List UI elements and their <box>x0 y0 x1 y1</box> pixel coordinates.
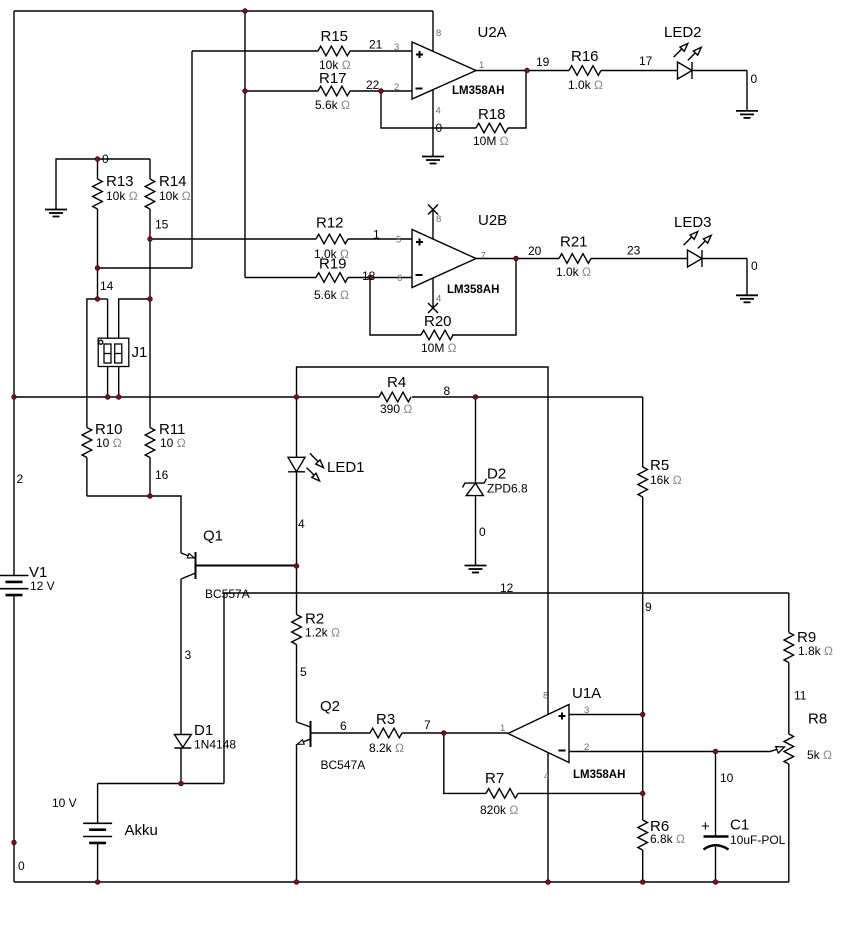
svg-text:R4: R4 <box>387 374 406 391</box>
svg-text:1.0k Ω: 1.0k Ω <box>568 78 603 92</box>
svg-text:Q1: Q1 <box>203 528 223 545</box>
svg-text:R16: R16 <box>571 48 599 65</box>
svg-text:2: 2 <box>394 82 399 93</box>
svg-text:5.6k Ω: 5.6k Ω <box>315 98 350 112</box>
svg-text:20: 20 <box>528 244 542 258</box>
svg-text:3: 3 <box>185 648 192 662</box>
svg-text:11: 11 <box>794 689 807 703</box>
svg-text:1.2k Ω: 1.2k Ω <box>305 626 340 640</box>
svg-text:1: 1 <box>479 60 484 71</box>
svg-text:10 V: 10 V <box>52 796 77 810</box>
svg-text:0: 0 <box>436 121 443 135</box>
svg-text:7: 7 <box>424 718 431 732</box>
svg-text:U2A: U2A <box>478 24 507 41</box>
svg-text:18: 18 <box>362 269 376 283</box>
svg-text:D1: D1 <box>194 722 213 739</box>
svg-text:8: 8 <box>444 384 451 398</box>
svg-text:0: 0 <box>18 859 25 873</box>
svg-text:5.6k Ω: 5.6k Ω <box>314 288 349 302</box>
svg-text:2: 2 <box>17 472 24 486</box>
svg-text:6: 6 <box>397 273 402 284</box>
svg-text:R19: R19 <box>319 256 347 273</box>
svg-text:R17: R17 <box>319 70 347 87</box>
svg-text:Akku: Akku <box>125 822 158 839</box>
svg-text:22: 22 <box>366 78 380 92</box>
svg-text:10: 10 <box>720 771 734 785</box>
svg-text:U2B: U2B <box>478 212 507 229</box>
svg-text:16k Ω: 16k Ω <box>650 473 682 487</box>
svg-text:12: 12 <box>500 581 514 595</box>
svg-text:16: 16 <box>155 468 169 482</box>
svg-text:Q2: Q2 <box>320 698 340 715</box>
svg-text:0: 0 <box>751 259 758 273</box>
svg-text:J1: J1 <box>132 344 148 361</box>
svg-text:LED2: LED2 <box>664 24 702 41</box>
svg-text:9: 9 <box>645 600 652 614</box>
svg-text:R14: R14 <box>159 173 187 190</box>
svg-text:6: 6 <box>340 719 347 733</box>
svg-text:1: 1 <box>500 723 505 734</box>
svg-text:8: 8 <box>436 28 441 39</box>
svg-text:10 Ω: 10 Ω <box>96 436 122 450</box>
svg-text:4: 4 <box>436 294 441 305</box>
svg-text:R21: R21 <box>560 234 588 251</box>
svg-text:5k Ω: 5k Ω <box>807 748 832 762</box>
svg-text:0: 0 <box>751 72 758 86</box>
svg-text:LED3: LED3 <box>674 214 712 231</box>
svg-text:1.0k Ω: 1.0k Ω <box>556 265 591 279</box>
svg-text:23: 23 <box>627 244 641 258</box>
svg-text:4: 4 <box>298 517 305 531</box>
svg-text:1: 1 <box>373 228 380 242</box>
svg-text:0: 0 <box>479 525 486 539</box>
svg-text:19: 19 <box>536 55 550 69</box>
svg-text:R8: R8 <box>808 711 827 728</box>
svg-text:10 Ω: 10 Ω <box>160 436 186 450</box>
svg-text:R3: R3 <box>376 711 395 728</box>
svg-text:4: 4 <box>436 106 441 117</box>
svg-text:C1: C1 <box>730 817 749 834</box>
svg-text:3: 3 <box>584 705 589 716</box>
svg-text:BC547A: BC547A <box>321 758 366 772</box>
svg-text:+: + <box>701 818 710 835</box>
svg-text:LED1: LED1 <box>327 459 365 476</box>
svg-text:7: 7 <box>481 251 486 262</box>
svg-text:0: 0 <box>102 152 109 166</box>
svg-text:10M Ω: 10M Ω <box>421 341 457 355</box>
svg-text:R18: R18 <box>478 106 506 123</box>
svg-text:4: 4 <box>544 771 549 782</box>
svg-text:3: 3 <box>394 42 399 53</box>
svg-text:D2: D2 <box>487 466 506 483</box>
svg-text:R7: R7 <box>485 770 504 787</box>
svg-text:ZPD6.8: ZPD6.8 <box>487 482 528 496</box>
svg-text:R12: R12 <box>316 215 344 232</box>
svg-text:R20: R20 <box>424 313 452 330</box>
svg-text:10uF-POL: 10uF-POL <box>730 833 786 847</box>
svg-text:1.8k Ω: 1.8k Ω <box>798 644 833 658</box>
svg-text:8.2k Ω: 8.2k Ω <box>369 741 404 755</box>
svg-text:8: 8 <box>543 691 548 702</box>
svg-text:390 Ω: 390 Ω <box>380 402 412 416</box>
svg-text:15: 15 <box>155 218 169 232</box>
svg-text:12 V: 12 V <box>30 579 55 593</box>
svg-text:5: 5 <box>300 665 307 679</box>
svg-text:2: 2 <box>584 742 589 753</box>
svg-text:BC557A: BC557A <box>205 587 250 601</box>
svg-text:5: 5 <box>396 235 401 246</box>
svg-text:LM358AH: LM358AH <box>452 85 504 97</box>
svg-text:1N4148: 1N4148 <box>194 738 236 752</box>
svg-text:LM358AH: LM358AH <box>573 769 625 781</box>
svg-text:8: 8 <box>436 214 441 225</box>
svg-text:R15: R15 <box>321 28 349 45</box>
svg-text:R5: R5 <box>650 457 669 474</box>
svg-text:R13: R13 <box>106 173 134 190</box>
svg-text:14: 14 <box>100 279 114 293</box>
svg-text:U1A: U1A <box>572 685 601 702</box>
svg-text:10M Ω: 10M Ω <box>473 134 509 148</box>
svg-text:LM358AH: LM358AH <box>447 284 499 296</box>
svg-text:6.8k Ω: 6.8k Ω <box>650 832 685 846</box>
svg-text:17: 17 <box>639 54 653 68</box>
svg-text:21: 21 <box>369 38 383 52</box>
svg-text:820k Ω: 820k Ω <box>480 803 518 817</box>
svg-text:10k Ω: 10k Ω <box>159 189 191 203</box>
svg-text:10k Ω: 10k Ω <box>106 189 138 203</box>
